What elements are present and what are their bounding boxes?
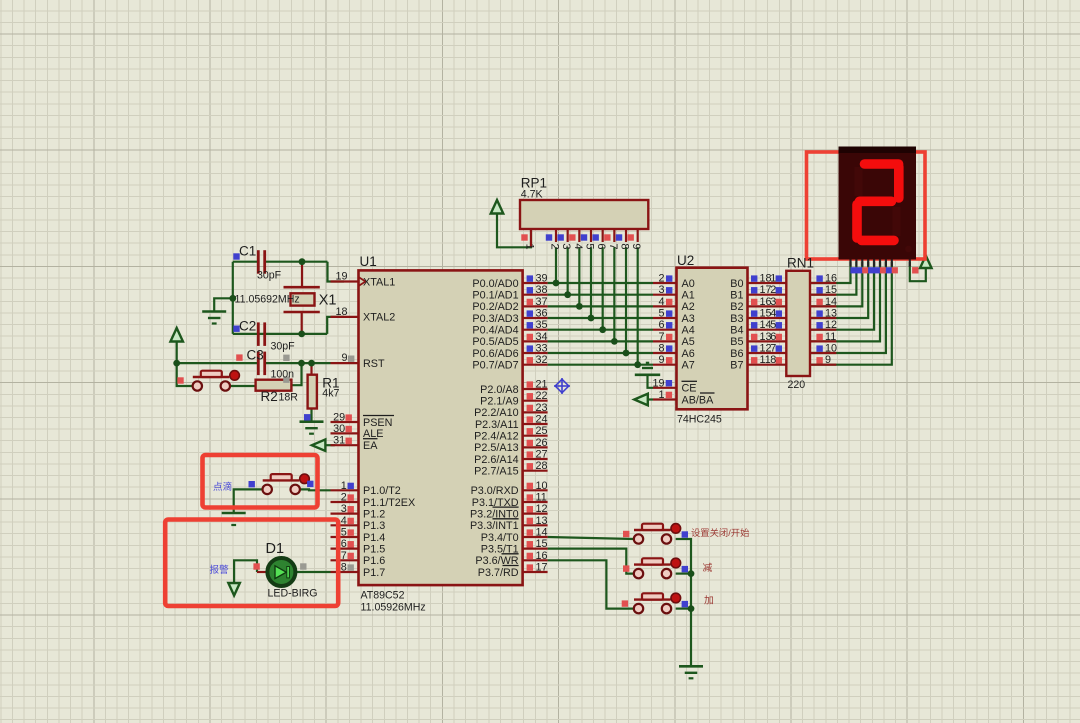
U1 left pin names bbox=[363, 276, 415, 578]
svg-text:13: 13 bbox=[536, 515, 548, 527]
svg-text:P0.2/AD2: P0.2/AD2 bbox=[472, 301, 518, 313]
U1 right pin names bbox=[470, 278, 519, 579]
svg-text:报警: 报警 bbox=[210, 564, 230, 576]
svg-text:3: 3 bbox=[341, 503, 347, 515]
svg-text:1: 1 bbox=[770, 273, 776, 285]
overline INT1 bbox=[493, 518, 519, 520]
wire R1 bottom stub to ground bbox=[310, 409, 312, 422]
button 减 bbox=[634, 563, 671, 565]
state squares U1 right P0 bbox=[527, 275, 533, 363]
wire C1 left to rail bbox=[233, 261, 259, 263]
wire VCC rail down to reset button bbox=[177, 363, 193, 386]
svg-text:34: 34 bbox=[536, 331, 548, 343]
svg-text:36: 36 bbox=[536, 308, 548, 320]
svg-text:7: 7 bbox=[607, 243, 619, 249]
svg-text:9: 9 bbox=[341, 352, 347, 364]
svg-text:26: 26 bbox=[536, 437, 548, 449]
svg-text:13: 13 bbox=[825, 308, 837, 320]
svg-text:14: 14 bbox=[825, 296, 837, 308]
capacitor C1 bbox=[257, 250, 260, 274]
U2 pin numbers left bbox=[652, 273, 664, 402]
wire U2 AB/BA to power arrow bbox=[648, 398, 653, 400]
power arrow VCC left bbox=[170, 328, 183, 342]
svg-text:B4: B4 bbox=[730, 324, 743, 336]
junction C2/XTAL2/crystal bbox=[298, 331, 305, 338]
svg-text:8: 8 bbox=[619, 243, 631, 249]
wire 点滴 button left to ground bbox=[234, 489, 263, 513]
svg-text:减: 减 bbox=[703, 562, 713, 574]
svg-text:220: 220 bbox=[788, 379, 806, 391]
svg-text:P0.3/AD3: P0.3/AD3 bbox=[472, 313, 518, 325]
svg-text:A1: A1 bbox=[682, 289, 695, 301]
svg-text:P2.4/A12: P2.4/A12 bbox=[474, 430, 518, 442]
overline BA bbox=[700, 392, 715, 394]
wire RN1 pin 10 to display segment bbox=[810, 262, 886, 353]
svg-text:19: 19 bbox=[652, 377, 664, 389]
wire net P0.2/AD2 U1 to U2 bbox=[548, 305, 653, 307]
svg-text:30pF: 30pF bbox=[271, 341, 296, 353]
svg-text:P0.7/AD7: P0.7/AD7 bbox=[472, 359, 518, 371]
wire U2 B1 to RN1 pin 2 bbox=[748, 294, 787, 296]
svg-text:A4: A4 bbox=[682, 324, 695, 336]
svg-text:EA: EA bbox=[363, 440, 378, 452]
wire RP1 pin 3 drop to P0.1/AD1 bbox=[567, 247, 569, 294]
svg-text:P1.2: P1.2 bbox=[363, 508, 385, 520]
wire U2 B0 to RN1 pin 1 bbox=[748, 282, 787, 284]
button 点滴 bbox=[263, 479, 300, 481]
state square LED right bbox=[300, 563, 306, 569]
RN1 right pin numbers bbox=[825, 273, 837, 367]
7-segment display frame bbox=[807, 152, 926, 259]
svg-text:B6: B6 bbox=[730, 348, 743, 360]
svg-text:X1: X1 bbox=[319, 293, 337, 309]
overline PSEN bbox=[363, 415, 394, 417]
power arrow VCC display bbox=[920, 256, 932, 269]
wire ground branch upper left bbox=[214, 298, 233, 311]
svg-text:32: 32 bbox=[536, 354, 548, 366]
svg-text:14: 14 bbox=[536, 526, 548, 538]
wire button 加 to rail bbox=[676, 607, 691, 609]
svg-text:4: 4 bbox=[341, 515, 347, 527]
wire R2 right riser to RST row bbox=[291, 363, 301, 385]
wire C1 right to node XTAL1 bbox=[265, 261, 328, 263]
state squares U1 right P2 bbox=[527, 381, 533, 469]
svg-text:设置关闭/开始: 设置关闭/开始 bbox=[691, 527, 749, 538]
power arrow VCC RP1 bbox=[491, 200, 504, 214]
wire net P0.0/AD0 U1 to U2 bbox=[548, 282, 653, 284]
svg-text:6: 6 bbox=[595, 243, 607, 249]
svg-text:4: 4 bbox=[658, 296, 664, 308]
junction C1/XTAL1/crystal bbox=[299, 258, 306, 265]
svg-text:4: 4 bbox=[572, 243, 584, 249]
junction P0.5/AD5 / RP1 bbox=[611, 338, 618, 345]
U1 pin numbers left bbox=[333, 271, 347, 574]
wire RP1 pin 2 drop to P0.0/AD0 bbox=[555, 247, 557, 283]
svg-text:6: 6 bbox=[341, 538, 347, 550]
state squares button 设置 terminals bbox=[623, 531, 629, 537]
power arrow down 报警 bbox=[228, 583, 240, 596]
state squares RN1 right bbox=[816, 275, 822, 363]
svg-text:P3.7/RD: P3.7/RD bbox=[478, 567, 519, 579]
svg-text:C3: C3 bbox=[247, 348, 264, 363]
crystal X1 bbox=[284, 287, 320, 312]
junction P0.0/AD0 / RP1 bbox=[553, 280, 560, 287]
svg-text:4.7K: 4.7K bbox=[521, 189, 543, 201]
svg-text:31: 31 bbox=[333, 435, 345, 447]
wire button 减 to rail bbox=[676, 572, 691, 574]
svg-text:6: 6 bbox=[658, 319, 664, 331]
svg-text:RN1: RN1 bbox=[787, 256, 814, 271]
svg-text:15: 15 bbox=[825, 284, 837, 296]
U2 left pins bbox=[653, 283, 677, 400]
svg-text:9: 9 bbox=[630, 243, 642, 249]
svg-text:8: 8 bbox=[770, 354, 776, 366]
wire display common to VCC arrow bbox=[910, 262, 926, 281]
svg-text:11: 11 bbox=[825, 331, 836, 343]
wire U2 B3 to RN1 pin 4 bbox=[748, 317, 787, 319]
wire buttons common rail to ground bbox=[676, 539, 691, 666]
wire U1 P3.6/WR to button 加 bbox=[548, 560, 634, 608]
state square U1 RST bbox=[348, 356, 354, 362]
svg-text:1: 1 bbox=[524, 243, 536, 249]
RN1 right pins bbox=[810, 283, 836, 365]
svg-text:P2.7/A15: P2.7/A15 bbox=[474, 465, 518, 477]
svg-text:8: 8 bbox=[658, 343, 664, 355]
svg-text:1: 1 bbox=[341, 480, 347, 492]
resistor R1 bbox=[308, 375, 317, 409]
resistor R2 bbox=[256, 380, 292, 391]
svg-text:XTAL2: XTAL2 bbox=[363, 312, 395, 324]
overline EA bbox=[363, 438, 378, 440]
svg-text:A2: A2 bbox=[682, 301, 695, 313]
svg-text:P0.5/AD5: P0.5/AD5 bbox=[472, 336, 518, 348]
wire net P0.5/AD5 U1 to U2 bbox=[548, 340, 653, 342]
svg-text:3: 3 bbox=[658, 284, 664, 296]
svg-text:4k7: 4k7 bbox=[322, 388, 339, 400]
wire crystal bottom stub bbox=[301, 313, 303, 334]
svg-text:12: 12 bbox=[536, 503, 548, 515]
svg-text:D1: D1 bbox=[266, 541, 285, 557]
svg-text:22: 22 bbox=[536, 390, 548, 402]
svg-text:P2.0/A8: P2.0/A8 bbox=[480, 384, 518, 396]
wire crystal top stub bbox=[301, 262, 303, 288]
wire net P0.3/AD3 U1 to U2 bbox=[548, 317, 653, 319]
svg-text:AB/BA: AB/BA bbox=[682, 394, 715, 406]
wire node to XTAL1 pin bbox=[328, 262, 345, 282]
svg-text:2: 2 bbox=[770, 284, 776, 296]
state square U2 CE bbox=[666, 380, 672, 386]
junction P0.6/AD6 / RP1 bbox=[623, 350, 630, 357]
wire U2 CE to flipped ground bbox=[648, 375, 654, 388]
wire left rail C1-C2 bbox=[232, 262, 234, 334]
junction P0.4/AD4 / RP1 bbox=[599, 326, 606, 333]
state square U2 AB/BA bbox=[666, 392, 672, 398]
wire RN1 pin 12 to display segment bbox=[810, 262, 874, 330]
junction P0.7/AD7 / RP1 bbox=[634, 361, 641, 368]
svg-text:PSEN: PSEN bbox=[363, 417, 392, 429]
wire RST row C3 to R2/R1 nodes bbox=[265, 362, 331, 364]
wire U1 P3.4/T0 to button 设置 bbox=[548, 537, 634, 539]
7-segment unlit dp bbox=[905, 246, 912, 253]
7-segment unlit segment c bbox=[893, 207, 901, 236]
svg-text:74HC245: 74HC245 bbox=[677, 414, 722, 426]
junction R1 on RST row bbox=[308, 360, 315, 367]
state squares RN1 left bbox=[776, 275, 782, 363]
junction P0.2/AD2 / RP1 bbox=[576, 303, 583, 310]
U1 pin numbers right bbox=[536, 273, 548, 574]
svg-text:5: 5 bbox=[341, 526, 347, 538]
svg-text:23: 23 bbox=[536, 402, 548, 414]
wire RN1 pin 15 to display segment bbox=[810, 262, 856, 295]
power arrow at EA bbox=[312, 439, 326, 451]
wire RN1 pin 16 to display segment bbox=[810, 262, 851, 283]
svg-text:P1.5: P1.5 bbox=[363, 543, 385, 555]
wire net P0.7/AD7 U1 to U2 bbox=[548, 364, 653, 366]
svg-text:RST: RST bbox=[363, 358, 385, 370]
svg-text:P0.0/AD0: P0.0/AD0 bbox=[472, 278, 518, 290]
svg-text:C2: C2 bbox=[239, 319, 256, 334]
wire RP1 pin 7 drop to P0.5/AD5 bbox=[613, 247, 615, 341]
ground below 点滴 button bbox=[222, 512, 246, 515]
svg-text:3: 3 bbox=[560, 243, 572, 249]
svg-text:P2.5/A13: P2.5/A13 bbox=[474, 442, 518, 454]
annotation box 报警 (alarm) highlight bbox=[165, 520, 338, 607]
wire reset button to R2 bbox=[230, 385, 256, 387]
7-segment display body bbox=[839, 147, 917, 260]
wire net P0.1/AD1 U1 to U2 bbox=[548, 294, 653, 296]
LED D1 LED-BIRG bbox=[267, 558, 295, 586]
state square R1 bottom bbox=[304, 414, 310, 420]
svg-text:U1: U1 bbox=[360, 254, 377, 269]
svg-text:35: 35 bbox=[536, 319, 548, 331]
state square LED left bbox=[253, 563, 259, 569]
svg-text:10: 10 bbox=[536, 480, 548, 492]
wire VCC arrow to RST row bbox=[176, 342, 178, 364]
svg-text:17: 17 bbox=[536, 561, 548, 573]
svg-text:B3: B3 bbox=[730, 313, 743, 325]
svg-text:7: 7 bbox=[658, 331, 664, 343]
svg-text:25: 25 bbox=[536, 425, 548, 437]
svg-text:B0: B0 bbox=[730, 278, 743, 290]
overline INT0 bbox=[493, 506, 519, 508]
svg-text:U2: U2 bbox=[677, 253, 694, 268]
state square C3 left bbox=[236, 354, 242, 360]
button 设置关闭/开始 bbox=[634, 529, 671, 531]
svg-text:CE: CE bbox=[682, 383, 697, 395]
wire U2 B2 to RN1 pin 3 bbox=[748, 305, 787, 307]
svg-text:B1: B1 bbox=[730, 289, 743, 301]
svg-text:2: 2 bbox=[341, 491, 347, 503]
svg-text:P1.6: P1.6 bbox=[363, 555, 385, 567]
svg-text:28: 28 bbox=[536, 460, 548, 472]
wire RP1 pin1 to VCC arrow bbox=[497, 214, 531, 248]
svg-text:27: 27 bbox=[536, 449, 548, 461]
overline WR bbox=[502, 553, 519, 555]
junction button 加 rail bbox=[688, 605, 695, 612]
svg-text:18: 18 bbox=[335, 306, 347, 318]
junction P0.1/AD1 / RP1 bbox=[564, 291, 571, 298]
svg-text:16: 16 bbox=[825, 273, 837, 285]
wire RP1 pin 6 drop to P0.4/AD4 bbox=[602, 247, 604, 329]
origin marker bbox=[554, 378, 570, 394]
wire U2 B7 to RN1 pin 8 bbox=[748, 364, 787, 366]
svg-text:29: 29 bbox=[333, 412, 345, 424]
svg-text:A5: A5 bbox=[682, 336, 695, 348]
capacitor C3 bbox=[257, 352, 260, 376]
svg-text:2: 2 bbox=[549, 243, 561, 249]
state square C2 left bbox=[233, 326, 239, 332]
wire RP1 pin 8 drop to P0.6/AD6 bbox=[625, 247, 627, 353]
capacitor C2 bbox=[257, 322, 260, 346]
svg-text:LED-BIRG: LED-BIRG bbox=[268, 588, 318, 600]
svg-text:15: 15 bbox=[536, 538, 548, 550]
wire RN1 pin 9 to display segment bbox=[810, 262, 892, 365]
svg-text:B5: B5 bbox=[730, 336, 743, 348]
svg-text:33: 33 bbox=[536, 343, 548, 355]
resistor network RN1 body bbox=[786, 271, 810, 376]
svg-text:100n: 100n bbox=[271, 369, 295, 381]
overline RD bbox=[503, 564, 519, 566]
svg-text:9: 9 bbox=[825, 354, 831, 366]
svg-text:P1.4: P1.4 bbox=[363, 532, 385, 544]
svg-text:8: 8 bbox=[341, 561, 347, 573]
state squares U2 B side bbox=[751, 275, 757, 363]
svg-text:P2.3/A11: P2.3/A11 bbox=[475, 419, 519, 431]
svg-text:P1.7: P1.7 bbox=[363, 567, 385, 579]
svg-text:点滴: 点滴 bbox=[213, 481, 232, 493]
IC U1 AT89C52 body bbox=[359, 270, 523, 585]
svg-text:19: 19 bbox=[335, 271, 347, 283]
svg-text:11.05692MHz: 11.05692MHz bbox=[235, 294, 300, 306]
U2 pin numbers right and RN1 left pin numbers bbox=[760, 273, 777, 367]
svg-text:P2.2/A10: P2.2/A10 bbox=[474, 407, 518, 419]
7-segment lit segments digit 2 bbox=[857, 164, 899, 240]
wire U2 B5 to RN1 pin 6 bbox=[748, 340, 787, 342]
state square reset button left bbox=[177, 377, 183, 383]
svg-text:24: 24 bbox=[536, 414, 548, 426]
wire RN1 pin 11 to display segment bbox=[810, 262, 880, 341]
svg-text:P1.1/T2EX: P1.1/T2EX bbox=[363, 497, 415, 509]
ground below buttons bbox=[679, 665, 703, 668]
ground upper left bbox=[202, 310, 226, 313]
svg-text:A6: A6 bbox=[682, 348, 695, 360]
svg-text:B2: B2 bbox=[730, 301, 743, 313]
wire LED left stub bbox=[257, 571, 268, 573]
svg-text:39: 39 bbox=[536, 273, 548, 285]
svg-text:38: 38 bbox=[536, 284, 548, 296]
svg-text:P0.6/AD6: P0.6/AD6 bbox=[472, 348, 518, 360]
svg-text:P3.4/T0: P3.4/T0 bbox=[481, 532, 519, 544]
svg-text:4: 4 bbox=[770, 308, 776, 320]
wire LED anode to down arrow bbox=[234, 560, 257, 583]
junction left rail ground bbox=[229, 295, 236, 302]
overline CE bbox=[682, 380, 698, 382]
wire RN1 pin 14 to display segment bbox=[810, 262, 862, 306]
button 加 bbox=[634, 598, 671, 600]
wire R1 top stub bbox=[310, 363, 312, 375]
svg-text:A0: A0 bbox=[682, 278, 695, 290]
state squares U2 A side bbox=[666, 275, 672, 363]
svg-text:2: 2 bbox=[658, 273, 664, 285]
wire RST row left segment bbox=[177, 362, 259, 364]
svg-text:7: 7 bbox=[770, 343, 776, 355]
state squares RP1 pins bbox=[521, 234, 634, 240]
state squares U1 right P3 bbox=[527, 483, 533, 571]
svg-text:12: 12 bbox=[825, 319, 837, 331]
svg-text:10: 10 bbox=[825, 343, 837, 355]
svg-text:16: 16 bbox=[536, 550, 548, 562]
svg-text:11: 11 bbox=[536, 491, 547, 503]
reset button bbox=[193, 376, 230, 378]
state squares button 加 terminals bbox=[622, 600, 628, 606]
state square 点滴 button left bbox=[249, 481, 255, 487]
7-segment unlit segment f bbox=[855, 167, 863, 196]
svg-text:P1.3: P1.3 bbox=[363, 520, 385, 532]
state square C1 top-left bbox=[233, 253, 239, 259]
svg-text:C1: C1 bbox=[239, 244, 256, 259]
state squares U1 PSEN ALE EA bbox=[346, 414, 352, 444]
state square C3 right bbox=[283, 355, 289, 361]
svg-text:AT89C52: AT89C52 bbox=[361, 590, 405, 602]
svg-text:P3.3/INT1: P3.3/INT1 bbox=[470, 520, 519, 532]
svg-text:P2.6/A14: P2.6/A14 bbox=[474, 454, 518, 466]
svg-text:P2.1/A9: P2.1/A9 bbox=[480, 395, 518, 407]
svg-text:A3: A3 bbox=[682, 313, 695, 325]
U1 input arrow XTAL1 bbox=[359, 277, 366, 286]
wire RP1 pin 4 drop to P0.2/AD2 bbox=[578, 247, 580, 306]
svg-text:30pF: 30pF bbox=[257, 270, 282, 282]
svg-text:P0.1/AD1: P0.1/AD1 bbox=[472, 289, 518, 301]
IC U2 74HC245 body bbox=[677, 268, 748, 410]
wire 点滴 button to U1 P1.0 bbox=[299, 488, 330, 491]
resistor pack RP1 body bbox=[520, 200, 648, 229]
wire net P0.6/AD6 U1 to U2 bbox=[548, 352, 653, 354]
wire net P0.4/AD4 U1 to U2 bbox=[548, 329, 653, 331]
svg-text:11: 11 bbox=[760, 354, 771, 366]
7-segment display pins bbox=[851, 260, 910, 267]
U1 right pins bbox=[523, 283, 548, 572]
junction button 减 rail bbox=[688, 570, 695, 577]
state squares button 减 terminals bbox=[623, 565, 629, 571]
wire U2 B4 to RN1 pin 5 bbox=[748, 329, 787, 331]
svg-text:37: 37 bbox=[536, 296, 548, 308]
junction VCC/RST rail bbox=[173, 360, 180, 367]
svg-text:P0.4/AD4: P0.4/AD4 bbox=[472, 324, 518, 336]
annotation box 点滴 (drip) highlight bbox=[203, 455, 318, 508]
svg-text:5: 5 bbox=[584, 243, 596, 249]
state square display common bbox=[912, 267, 918, 273]
svg-text:B7: B7 bbox=[730, 359, 743, 371]
svg-text:18R: 18R bbox=[279, 392, 299, 404]
svg-text:P3.0/RXD: P3.0/RXD bbox=[471, 485, 519, 497]
RP1 pin stubs bbox=[531, 229, 638, 247]
wire C2 bottom row bbox=[233, 333, 327, 335]
ground flipped at U2 CE bbox=[635, 373, 660, 376]
svg-text:11.05926MHz: 11.05926MHz bbox=[361, 602, 426, 614]
wire LED to U1 P1.7 bbox=[296, 571, 331, 573]
svg-text:7: 7 bbox=[341, 550, 347, 562]
svg-text:6: 6 bbox=[770, 331, 776, 343]
wire RP1 pin 5 drop to P0.3/AD3 bbox=[590, 247, 592, 318]
svg-text:30: 30 bbox=[333, 423, 345, 435]
U2 pin names bbox=[682, 278, 744, 407]
svg-text:5: 5 bbox=[658, 308, 664, 320]
wire RN1 pin 13 to display segment bbox=[810, 262, 868, 318]
state square R2 right bbox=[283, 377, 289, 383]
junction R2 riser on RST row bbox=[298, 360, 305, 367]
state squares display segment pins bbox=[850, 267, 898, 273]
svg-text:A7: A7 bbox=[682, 359, 695, 371]
